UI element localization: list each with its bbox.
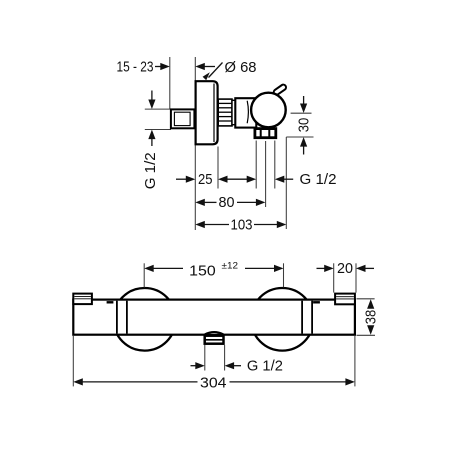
svg-text:304: 304 xyxy=(200,375,227,391)
dim G1/2 left: upper leg+arrow xyxy=(151,91,153,102)
dim G1/2 left: lower leg+arrow xyxy=(151,137,153,146)
dim G1/2 left: bottom ext line xyxy=(145,129,171,131)
thread grooves xyxy=(219,103,232,121)
right escutcheon circle xyxy=(251,288,314,351)
handle lever stub xyxy=(273,84,287,96)
svg-text:±12: ±12 xyxy=(222,261,239,272)
dim 25 left arrow xyxy=(176,178,188,180)
extension line outlet axis xyxy=(265,141,267,207)
dim G1/2 outlet right arrow xyxy=(275,176,285,183)
dim 150 right arrow xyxy=(245,267,277,269)
inlet square inner xyxy=(174,112,190,125)
dim G1/2 bottom right arrow xyxy=(225,362,235,369)
dim 30: bottom ext line xyxy=(286,136,313,138)
dim 38 top arrow xyxy=(367,299,374,309)
dim 103 xyxy=(195,221,205,228)
svg-text:G 1/2: G 1/2 xyxy=(247,359,283,375)
outlet dome xyxy=(205,332,224,334)
dim G1/2 outlet left arrow (shares tail) xyxy=(247,176,257,183)
svg-text:20: 20 xyxy=(337,261,353,277)
right tick xyxy=(313,301,320,303)
outlet nut under handle xyxy=(255,129,276,138)
left ring lines xyxy=(116,301,118,334)
svg-text:15 - 23: 15 - 23 xyxy=(117,59,154,75)
valve body xyxy=(235,98,256,127)
mixer bar xyxy=(73,300,355,335)
flange line xyxy=(205,339,224,341)
escutcheon rim line xyxy=(213,84,215,143)
wire: extension line left (15-23 dim, square face) xyxy=(169,57,171,109)
dim 304 right arrow xyxy=(345,378,355,385)
right ring lines xyxy=(301,301,303,334)
svg-text:30: 30 xyxy=(297,118,313,133)
dim 30: lower leg+arrow xyxy=(303,145,305,155)
dim 38 bottom arrow xyxy=(367,325,374,335)
dim 150: right ext xyxy=(283,263,285,287)
dim 150 left arrow xyxy=(144,265,154,272)
dim 38: top ext xyxy=(357,298,375,300)
extension line nut left xyxy=(255,141,257,189)
dim 20: left ext xyxy=(333,263,335,292)
dim G1/2 bottom: left ext xyxy=(204,345,206,371)
dim 30: upper leg+arrow xyxy=(303,96,305,105)
handle knob circle xyxy=(251,93,286,128)
dim 30: top ext line xyxy=(291,112,312,114)
dim 304 left arrow xyxy=(73,378,83,385)
dim 304: left ext xyxy=(72,336,74,387)
dim G1/2 left: top ext line xyxy=(145,108,171,110)
svg-text:25: 25 xyxy=(198,172,213,188)
svg-text:G 1/2: G 1/2 xyxy=(300,172,337,188)
right S-union block xyxy=(335,294,355,305)
dim 15-23 left arrow xyxy=(155,66,163,68)
outlet flange xyxy=(205,336,224,344)
left tick xyxy=(107,301,114,303)
groove band xyxy=(232,100,235,124)
extension line nut right xyxy=(274,141,276,189)
inlet square union xyxy=(171,109,195,128)
dim 20 right arrow xyxy=(356,265,366,272)
dim 150: left ext xyxy=(143,263,145,287)
dim 15-23 right arrow xyxy=(201,66,215,68)
dim 20 left arrow xyxy=(317,267,328,269)
svg-text:Ø 68: Ø 68 xyxy=(225,60,257,76)
left escutcheon circle xyxy=(113,288,176,351)
dim 20: right ext xyxy=(355,263,357,292)
dim G1/2 bottom: right ext xyxy=(224,345,226,371)
dim 80 xyxy=(195,199,205,206)
nut facet lines xyxy=(260,129,262,138)
escutcheon Ø68 xyxy=(196,81,218,144)
dim 38: bottom ext xyxy=(357,334,376,336)
dim G1/2 bottom left arrow xyxy=(191,365,199,367)
dim 304: right ext xyxy=(354,336,356,387)
leader Ø68 xyxy=(209,63,223,78)
svg-text:G 1/2: G 1/2 xyxy=(143,152,159,189)
svg-text:80: 80 xyxy=(219,195,235,211)
thread block xyxy=(218,99,232,126)
left S-union block xyxy=(73,294,92,305)
extension line handle front xyxy=(285,137,287,229)
cartridge cap arc xyxy=(247,101,248,123)
svg-text:38: 38 xyxy=(364,310,380,325)
svg-text:150: 150 xyxy=(189,264,216,280)
svg-text:103: 103 xyxy=(231,217,253,233)
wire: extension line wall face xyxy=(194,57,196,230)
dim 25 right arrow + shared tail xyxy=(224,178,250,180)
extension line escutcheon right xyxy=(217,147,219,189)
